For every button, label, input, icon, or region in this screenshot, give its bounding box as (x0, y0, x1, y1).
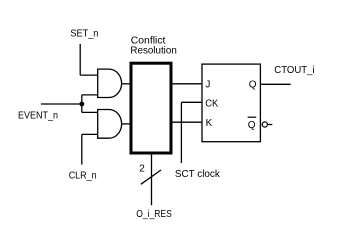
wire U1 to J input (173, 83, 202, 85)
wire CLR_n vertical (81, 134, 83, 164)
svg-text:SET_n: SET_n (70, 28, 98, 39)
svg-text:Q: Q (248, 120, 256, 131)
flip-flop U2 JK box (202, 64, 260, 142)
wire SET_n vertical (79, 44, 81, 75)
svg-text:O_i_RES: O_i_RES (136, 209, 172, 220)
wire CK horizontal (181, 101, 201, 103)
overline of Q-bar (248, 116, 257, 118)
svg-text:Resolution: Resolution (130, 46, 176, 57)
wire gate G1 output (122, 83, 130, 85)
svg-text:CLR_n: CLR_n (69, 170, 97, 181)
wire Q output CTOUT_i (261, 83, 291, 85)
wire SET_n horizontal to gate G1 (80, 74, 98, 76)
wire CLR_n horizontal to gate G2 (82, 133, 98, 135)
svg-text:CK: CK (205, 99, 218, 110)
svg-text:Q: Q (249, 80, 257, 91)
svg-text:SCT clock: SCT clock (175, 169, 221, 180)
block U1 Conflict Resolution box (131, 63, 171, 153)
svg-text:EVENT_n: EVENT_n (18, 110, 58, 121)
wire branch to gate G2 upper input (82, 111, 98, 113)
svg-text:CTOUT_i: CTOUT_i (274, 65, 314, 76)
wire U1 to K input (173, 121, 202, 123)
inverter bubble on Q-bar output (262, 122, 267, 127)
svg-text:2: 2 (139, 163, 145, 174)
bus width slash (141, 170, 161, 184)
wire Q-bar stub (268, 124, 272, 126)
svg-text:K: K (206, 118, 213, 129)
wire EVENT_n horizontal (41, 103, 82, 105)
AND gate G1 (SET/EVENT) (98, 69, 122, 97)
svg-text:Conflict: Conflict (131, 35, 166, 46)
wire branch to gate G1 lower input (82, 94, 98, 96)
node junction dot (79, 102, 84, 107)
wire gate G2 output (122, 123, 130, 125)
AND gate G2 (EVENT/CLR) (98, 110, 122, 139)
wire O_i_RES bus vertical (151, 155, 153, 206)
wire CK vertical from SCT clock (180, 102, 182, 163)
wire junction vertical branch (81, 95, 83, 113)
svg-text:J: J (205, 80, 210, 91)
